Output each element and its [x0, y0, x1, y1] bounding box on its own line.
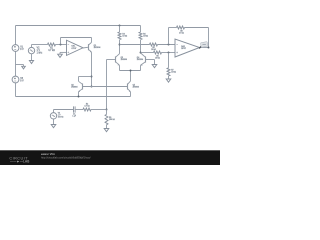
wire emitter bridge	[120, 70, 141, 72]
wire Q2 collector loop	[79, 76, 92, 78]
svg-text:Q4: Q4	[137, 57, 139, 59]
wire R9 bottom	[106, 125, 108, 129]
svg-text:R4: R4	[143, 33, 145, 35]
svg-text:10 kΩ: 10 kΩ	[155, 57, 160, 59]
node Q2 emitter on negative rail	[78, 96, 80, 98]
label Q3	[121, 57, 127, 61]
svg-text:C1: C1	[73, 114, 75, 116]
svg-text:9 V: 9 V	[20, 81, 24, 83]
source V4 sine	[50, 113, 56, 119]
ground V4	[51, 125, 56, 128]
svg-text:OP07: OP07	[71, 48, 76, 50]
svg-text:4.7 kΩ: 4.7 kΩ	[84, 106, 90, 108]
wire OA1 feedback	[60, 38, 62, 45]
label R4 value	[143, 33, 148, 37]
footer url text	[41, 155, 91, 159]
svg-text:2N3904: 2N3904	[71, 87, 77, 89]
node feedback junction at OA1 minus	[60, 44, 62, 46]
wire OA1 plus stub	[60, 51, 67, 53]
wire bridge center tap	[130, 71, 132, 82]
svg-text:R7: R7	[171, 69, 173, 71]
resistor R3	[118, 32, 121, 40]
wire OA1 output to Q1 base	[83, 46, 89, 49]
svg-text:2N3904: 2N3904	[121, 59, 127, 61]
svg-text:Q5: Q5	[133, 84, 135, 86]
label R1 value	[48, 48, 55, 52]
probe flag OUT	[199, 45, 202, 48]
label R9 value	[109, 117, 115, 121]
wire R1 to OA1 minus	[56, 44, 67, 46]
wire R7 bottom	[168, 76, 170, 79]
battery V3	[12, 76, 19, 83]
svg-text:R2: R2	[86, 104, 88, 106]
svg-text:Q2: Q2	[71, 85, 73, 87]
svg-text:4.7 kΩ: 4.7 kΩ	[48, 50, 55, 52]
wire Q2 emitter to negative rail	[78, 92, 80, 97]
CircuitLab logo	[9, 157, 29, 164]
wire C1 right to R2	[75, 109, 83, 111]
node OA2 minus junction	[168, 44, 170, 46]
svg-text:Q1: Q1	[94, 45, 97, 47]
wire Q4 collector up	[140, 40, 142, 53]
svg-text:ewara / VCA: ewara / VCA	[41, 153, 55, 156]
node emitter bridge tap	[130, 70, 132, 72]
transistor Q2	[82, 83, 84, 89]
transistor Q5	[127, 83, 129, 89]
label OA1	[71, 45, 76, 50]
svg-text:——►—LAB: ——►—LAB	[10, 159, 30, 163]
wire ground stub left rail	[16, 64, 24, 66]
resistor R7	[167, 68, 170, 76]
wire OA2 feedback right	[185, 27, 209, 29]
wire R9 top	[106, 110, 108, 115]
wire R3 top	[119, 26, 121, 33]
svg-text:1 V: 1 V	[37, 50, 41, 52]
svg-text:OP07: OP07	[181, 48, 186, 50]
transistor Q1	[88, 44, 90, 50]
ground R7	[166, 79, 171, 82]
ground R9	[104, 129, 109, 132]
node control junction	[106, 109, 108, 111]
op-amp OA2	[175, 39, 200, 57]
op-amp OA1	[67, 40, 84, 55]
label R8 value	[179, 30, 184, 34]
wire OA2 output	[200, 47, 209, 49]
wire left rail upper	[15, 26, 17, 45]
wire OA2 feedback left	[168, 28, 170, 45]
wire Q3 emitter down	[119, 65, 121, 70]
battery V1	[12, 45, 19, 52]
wire positive rail top	[16, 25, 141, 27]
wire left rail mid	[15, 51, 17, 76]
resistor R2	[83, 108, 91, 111]
wire positive rail corner to R4	[140, 26, 142, 33]
wire Q5 emitter to negative rail	[130, 92, 132, 97]
label V3 value	[20, 78, 24, 82]
wire R5 left	[120, 44, 150, 46]
label C1 value	[72, 114, 77, 118]
label R2 value	[84, 104, 90, 108]
label V1 value	[20, 47, 24, 51]
svg-text:1 kHz: 1 kHz	[37, 52, 43, 54]
svg-text:100 kΩ: 100 kΩ	[109, 119, 115, 121]
label Q2	[71, 85, 77, 89]
resistor R4	[139, 32, 142, 40]
svg-text:Q3: Q3	[121, 57, 123, 59]
label R7 value	[171, 69, 176, 73]
label V4 value	[58, 113, 64, 119]
node positive rail junction	[119, 25, 121, 27]
svg-text:10 kΩ: 10 kΩ	[122, 35, 127, 37]
svg-text:R5: R5	[152, 47, 154, 49]
wire V2 ground stem	[31, 54, 33, 61]
label R6 value	[155, 55, 160, 59]
wire V4 ground stem	[53, 119, 55, 125]
wire R6 left	[141, 52, 154, 54]
svg-text:2N3904: 2N3904	[94, 47, 102, 49]
resistor R5	[150, 43, 158, 46]
wire Q1 emitter down	[91, 52, 93, 86]
label R5 value	[151, 47, 156, 51]
footer title text	[41, 153, 55, 156]
node R4 bottom junction	[140, 52, 142, 54]
label Q1	[94, 45, 102, 49]
resistor R8	[177, 26, 185, 29]
label Q5	[133, 84, 139, 88]
resistor R6	[154, 51, 162, 54]
wire V2 top stub	[31, 45, 33, 48]
label Q4	[137, 57, 143, 61]
svg-text:2N3904: 2N3904	[133, 86, 139, 88]
ground Q4 base	[152, 65, 157, 68]
ground OA1 plus input	[58, 54, 63, 57]
resistor R9	[105, 114, 108, 124]
node OA2 plus junction	[168, 52, 170, 54]
wire Q3 collector up	[119, 40, 121, 54]
svg-text:R8: R8	[180, 30, 182, 32]
svg-text:V4: V4	[58, 113, 60, 115]
source V2 sine	[28, 47, 34, 53]
svg-text:10 kΩ: 10 kΩ	[171, 71, 176, 73]
resistor R1	[48, 43, 56, 46]
wire base line Q2 to Q5	[83, 86, 128, 88]
wire R7 top	[168, 53, 170, 68]
svg-text:R9: R9	[109, 117, 111, 119]
node OA2 output junction	[208, 47, 210, 49]
svg-text:47 kΩ: 47 kΩ	[179, 32, 184, 34]
wire R6 right	[162, 52, 176, 54]
wire V4 top stub	[53, 110, 55, 113]
wire Q4 base to ground	[146, 59, 155, 61]
wire Q4 emitter down	[140, 65, 142, 70]
svg-text:100 Hz: 100 Hz	[58, 117, 64, 119]
label V2 value	[37, 47, 43, 54]
svg-text:9 V: 9 V	[20, 49, 24, 51]
label OA2	[181, 45, 186, 50]
wire R5 right	[158, 44, 176, 46]
footer watermark bar	[0, 150, 220, 165]
wire left rail lower	[15, 83, 17, 97]
label R3 value	[122, 33, 127, 37]
ground left rail	[22, 66, 26, 69]
wire Q3 base	[107, 59, 116, 61]
svg-text:10 kΩ: 10 kΩ	[143, 35, 148, 37]
node R3 bottom to R5 tap	[119, 44, 121, 46]
transistor Q3	[115, 56, 117, 62]
node Q1 emitter to Q2 collector loop	[91, 76, 93, 78]
capacitor C1	[73, 106, 75, 112]
wire negative rail bottom	[16, 96, 131, 98]
ground V2	[29, 61, 33, 64]
svg-text:R3: R3	[122, 33, 124, 35]
wire R2 right	[91, 109, 107, 111]
node Q1 emitter to base line	[91, 86, 93, 88]
wire control vertical	[106, 60, 108, 110]
svg-text:R6: R6	[156, 55, 158, 57]
transistor Q4	[145, 56, 147, 62]
svg-text:2N3904: 2N3904	[137, 59, 143, 61]
